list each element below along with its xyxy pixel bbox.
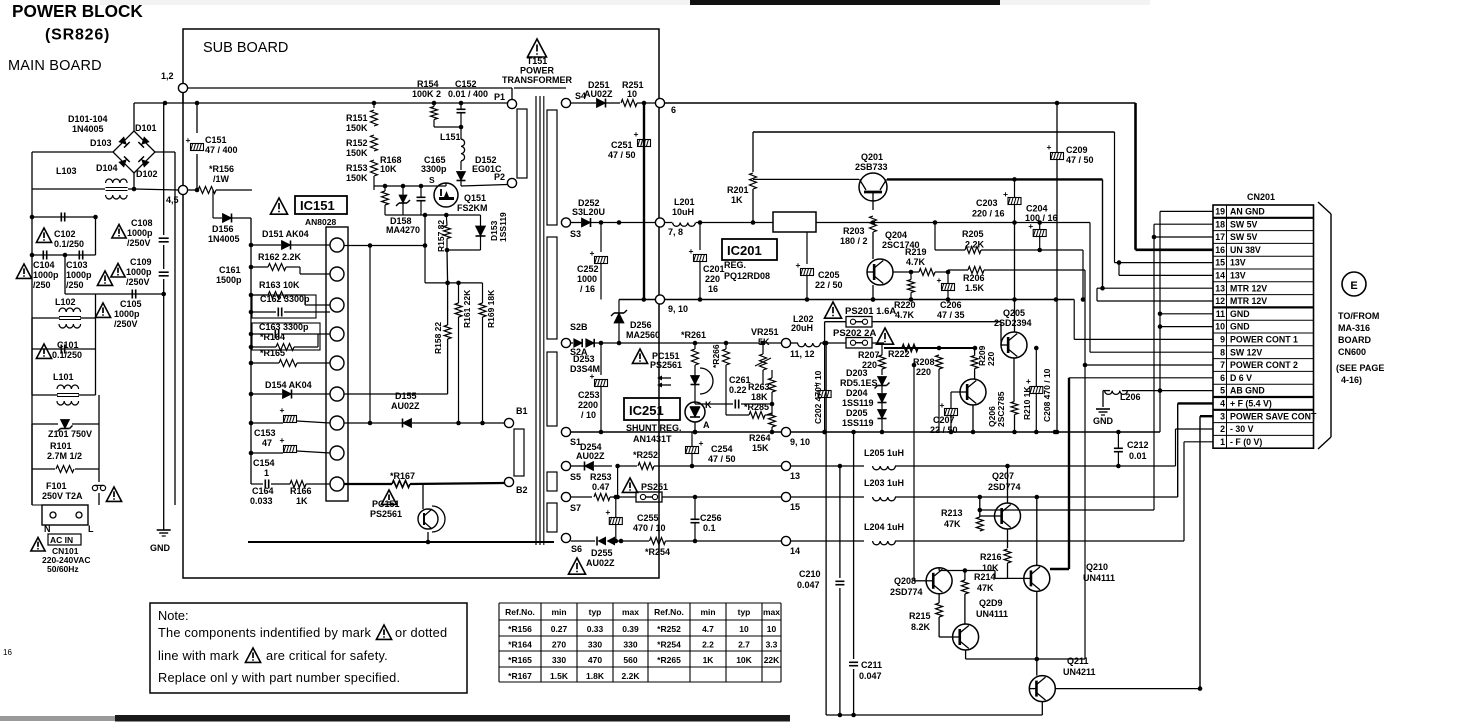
svg-text:560: 560 [623, 655, 637, 665]
svg-text:+: + [940, 400, 945, 410]
svg-text:IC151: IC151 [300, 198, 335, 213]
svg-text:R213: R213 [941, 508, 963, 518]
svg-text:15K: 15K [752, 443, 769, 453]
svg-text:MA-316: MA-316 [1338, 323, 1370, 333]
svg-text:4: 4 [1220, 399, 1225, 409]
svg-text:R166: R166 [290, 486, 312, 496]
svg-text:L206: L206 [1120, 392, 1141, 402]
svg-text:10uH: 10uH [672, 207, 694, 217]
svg-text:180 / 2: 180 / 2 [840, 236, 868, 246]
svg-text:L101: L101 [53, 372, 74, 382]
svg-text:C108: C108 [131, 218, 153, 228]
svg-text:B2: B2 [516, 485, 528, 495]
svg-text:47 / 50: 47 / 50 [1066, 155, 1094, 165]
svg-text:220: 220 [916, 367, 931, 377]
svg-text:+: + [1028, 221, 1033, 231]
svg-text:0.1/250: 0.1/250 [54, 239, 84, 249]
svg-text:1N4005: 1N4005 [208, 234, 240, 244]
svg-text:C205: C205 [818, 270, 840, 280]
svg-text:2SD2394: 2SD2394 [994, 318, 1032, 328]
svg-text:3: 3 [1220, 411, 1225, 421]
svg-text:AU02Z: AU02Z [584, 89, 613, 99]
svg-text:S2B: S2B [570, 322, 588, 332]
svg-text:R220: R220 [894, 300, 916, 310]
svg-text:R222: R222 [888, 349, 910, 359]
svg-text:R215: R215 [909, 611, 931, 621]
svg-text:R158 22: R158 22 [433, 322, 443, 354]
svg-text:/ 10: / 10 [581, 410, 596, 420]
svg-text:1000p: 1000p [33, 270, 59, 280]
svg-text:IC201: IC201 [727, 243, 762, 258]
svg-text:/250V: /250V [114, 319, 138, 329]
svg-text:7, 8: 7, 8 [668, 227, 683, 237]
svg-text:AB GND: AB GND [1230, 386, 1265, 396]
svg-text:PS251: PS251 [641, 482, 668, 492]
svg-text:2.7: 2.7 [738, 640, 750, 650]
svg-text:47 / 50: 47 / 50 [708, 454, 736, 464]
svg-text:L102: L102 [55, 297, 76, 307]
svg-text:Ref.No.: Ref.No. [505, 607, 535, 617]
svg-text:1N4005: 1N4005 [72, 124, 104, 134]
svg-text:*R167: *R167 [508, 671, 532, 681]
svg-text:+: + [1003, 189, 1008, 199]
svg-text:1: 1 [1220, 437, 1225, 447]
svg-text:/250: /250 [66, 280, 84, 290]
svg-text:or dotted: or dotted [395, 625, 447, 640]
svg-text:IC251: IC251 [629, 403, 664, 418]
svg-text:D 6 V: D 6 V [1230, 373, 1252, 383]
svg-text:220 / 16: 220 / 16 [972, 209, 1005, 219]
svg-text:C211: C211 [861, 660, 882, 670]
svg-text:MA4270: MA4270 [386, 225, 420, 235]
svg-text:REG.: REG. [724, 260, 746, 270]
svg-text:Q204: Q204 [885, 230, 907, 240]
svg-text:+: + [280, 435, 285, 445]
svg-text:+: + [605, 507, 610, 517]
svg-text:C207: C207 [933, 415, 955, 425]
svg-text:330: 330 [552, 655, 566, 665]
svg-text:C203: C203 [976, 198, 998, 208]
svg-text:Q210: Q210 [1086, 562, 1108, 572]
svg-text:1SS119: 1SS119 [842, 398, 874, 408]
svg-text:1000p: 1000p [127, 228, 153, 238]
svg-text:10: 10 [767, 624, 777, 634]
svg-text:4,5: 4,5 [166, 195, 179, 205]
svg-text:*R254: *R254 [645, 547, 670, 557]
svg-text:AU02Z: AU02Z [391, 401, 420, 411]
svg-text:22 / 50: 22 / 50 [815, 280, 843, 290]
svg-text:9, 10: 9, 10 [668, 304, 688, 314]
svg-text:C153: C153 [254, 428, 276, 438]
svg-text:7: 7 [1220, 360, 1225, 370]
svg-text:*R156: *R156 [209, 164, 234, 174]
svg-text:C206: C206 [940, 300, 962, 310]
svg-text:S: S [429, 175, 435, 185]
svg-text:VR251: VR251 [751, 327, 779, 337]
svg-text:270: 270 [552, 640, 566, 650]
svg-text:47 / 35: 47 / 35 [937, 310, 965, 320]
svg-text:UN4111: UN4111 [976, 609, 1008, 619]
svg-text:R101: R101 [50, 441, 72, 451]
svg-text:1000p: 1000p [114, 309, 140, 319]
svg-text:Q211: Q211 [1067, 656, 1089, 666]
svg-text:min: min [700, 607, 715, 617]
svg-text:47K: 47K [977, 583, 994, 593]
svg-text:R152: R152 [346, 138, 368, 148]
svg-text:19: 19 [1215, 207, 1225, 217]
svg-text:POWER: POWER [520, 66, 555, 76]
svg-text:47K: 47K [944, 519, 961, 529]
svg-text:9, 10: 9, 10 [790, 437, 810, 447]
svg-text:typ: typ [589, 607, 602, 617]
svg-text:+: + [634, 129, 639, 139]
svg-text:2.2: 2.2 [702, 640, 714, 650]
svg-text:220: 220 [986, 352, 996, 366]
svg-text:L205 1uH: L205 1uH [864, 448, 904, 458]
svg-text:0.1/250: 0.1/250 [52, 350, 82, 360]
svg-text:5: 5 [1220, 386, 1225, 396]
svg-text:1000p: 1000p [66, 270, 92, 280]
svg-text:C252: C252 [577, 264, 599, 274]
svg-text:AN1431T: AN1431T [633, 434, 672, 444]
svg-text:0.33: 0.33 [587, 624, 604, 634]
svg-text:0.27: 0.27 [551, 624, 568, 634]
svg-text:*R254: *R254 [657, 640, 681, 650]
svg-text:0.1: 0.1 [703, 523, 716, 533]
svg-text:*R265: *R265 [657, 655, 681, 665]
svg-text:1500p: 1500p [216, 275, 242, 285]
svg-text:D101-104: D101-104 [68, 114, 108, 124]
svg-text:MA2560: MA2560 [626, 330, 660, 340]
svg-text:D3S4M: D3S4M [570, 364, 600, 374]
svg-text:C253: C253 [578, 390, 600, 400]
svg-text:8: 8 [1220, 347, 1225, 357]
svg-text:Q151: Q151 [464, 193, 486, 203]
svg-text:MAIN BOARD: MAIN BOARD [8, 58, 102, 74]
svg-text:4-16): 4-16) [1341, 375, 1362, 385]
svg-text:max: max [763, 607, 780, 617]
svg-text:*R164: *R164 [260, 332, 285, 342]
svg-text:SW 5V: SW 5V [1230, 232, 1258, 242]
svg-text:C105: C105 [120, 299, 142, 309]
svg-text:D103: D103 [90, 138, 112, 148]
svg-text:CN600: CN600 [1338, 347, 1366, 357]
svg-text:C209: C209 [1066, 145, 1088, 155]
svg-text:10: 10 [627, 89, 637, 99]
svg-text:22K: 22K [764, 655, 780, 665]
svg-text:C102: C102 [54, 229, 76, 239]
svg-text:4.7K: 4.7K [895, 310, 915, 320]
svg-text:C255: C255 [637, 513, 659, 523]
svg-text:+: + [796, 260, 801, 270]
svg-text:POWER SAVE CONT: POWER SAVE CONT [1230, 411, 1317, 421]
svg-text:/ 16: / 16 [580, 284, 595, 294]
svg-text:C201: C201 [703, 264, 725, 274]
svg-text:Ref.No.: Ref.No. [654, 607, 684, 617]
svg-text:The components indentified by: The components indentified by mark [158, 625, 371, 640]
svg-text:15: 15 [1215, 258, 1225, 268]
svg-text:C103: C103 [66, 260, 88, 270]
svg-text:50/60Hz: 50/60Hz [47, 564, 79, 574]
svg-text:are critical for safety.: are critical for safety. [266, 648, 388, 663]
svg-text:6: 6 [671, 105, 676, 115]
svg-text:N: N [44, 524, 51, 534]
svg-text:GND: GND [1093, 416, 1114, 426]
svg-text:220: 220 [705, 274, 720, 284]
svg-text:0.01: 0.01 [1129, 451, 1147, 461]
svg-text:D155: D155 [395, 391, 417, 401]
svg-text:4.7: 4.7 [702, 624, 714, 634]
svg-text:330: 330 [588, 640, 602, 650]
svg-text:(SR826): (SR826) [45, 27, 110, 44]
svg-text:L203 1uH: L203 1uH [864, 478, 904, 488]
svg-text:9: 9 [1220, 335, 1225, 345]
svg-text:typ: typ [738, 607, 751, 617]
svg-text:B1: B1 [516, 406, 528, 416]
svg-text:*R266: *R266 [711, 344, 721, 368]
svg-text:D151 AK04: D151 AK04 [262, 229, 309, 239]
svg-text:R214: R214 [974, 572, 996, 582]
svg-text:F101: F101 [46, 481, 67, 491]
svg-text:P1: P1 [494, 92, 505, 102]
svg-text:0.22: 0.22 [729, 385, 747, 395]
svg-text:L103: L103 [56, 166, 77, 176]
svg-text:Z101 750V: Z101 750V [48, 429, 92, 439]
svg-text:L: L [88, 524, 94, 534]
svg-text:+: + [590, 248, 595, 258]
svg-text:- 30 V: - 30 V [1230, 424, 1254, 434]
svg-text:+: + [590, 371, 595, 381]
svg-text:22 / 50: 22 / 50 [930, 425, 958, 435]
svg-text:R216: R216 [980, 552, 1002, 562]
svg-text:R162 2.2K: R162 2.2K [258, 252, 302, 262]
svg-text:+: + [280, 405, 285, 415]
svg-text:13: 13 [1215, 283, 1225, 293]
svg-text:C101: C101 [57, 340, 79, 350]
svg-text:0.047: 0.047 [797, 580, 820, 590]
svg-text:1.5K: 1.5K [965, 283, 985, 293]
svg-text:+: + [699, 438, 704, 448]
svg-text:10: 10 [1215, 322, 1225, 332]
svg-text:FS2KM: FS2KM [457, 203, 488, 213]
svg-text:2SB733: 2SB733 [855, 162, 888, 172]
svg-text:C212: C212 [1127, 440, 1149, 450]
svg-text:*R285: *R285 [744, 402, 769, 412]
svg-text:47: 47 [262, 438, 272, 448]
svg-text:C104: C104 [33, 260, 55, 270]
svg-text:+: + [937, 275, 942, 285]
svg-text:D154 AK04: D154 AK04 [265, 380, 312, 390]
svg-text:1000: 1000 [577, 274, 597, 284]
svg-text:GND: GND [1230, 322, 1250, 332]
svg-text:0.47: 0.47 [592, 482, 610, 492]
svg-text:AN8028: AN8028 [305, 217, 336, 227]
svg-text:SW 5V: SW 5V [1230, 219, 1258, 229]
svg-text:20uH: 20uH [791, 323, 813, 333]
svg-text:E: E [1350, 280, 1357, 292]
svg-text:+ F (5.4 V): + F (5.4 V) [1230, 399, 1272, 409]
svg-text:SUB BOARD: SUB BOARD [203, 40, 288, 56]
svg-text:1: 1 [264, 468, 269, 478]
svg-text:13V: 13V [1230, 271, 1246, 281]
svg-text:PQ12RD08: PQ12RD08 [724, 271, 770, 281]
svg-text:6: 6 [1220, 373, 1225, 383]
svg-text:1,2: 1,2 [161, 71, 174, 81]
svg-text:C256: C256 [700, 513, 722, 523]
svg-text:R163 10K: R163 10K [259, 280, 300, 290]
svg-text:47 / 50: 47 / 50 [608, 150, 636, 160]
svg-text:A: A [703, 420, 710, 430]
svg-text:R263: R263 [748, 382, 770, 392]
svg-text:MTR 12V: MTR 12V [1230, 296, 1267, 306]
svg-text:TRANSFORMER: TRANSFORMER [502, 75, 572, 85]
svg-text:PS2561: PS2561 [370, 509, 402, 519]
svg-text:R253: R253 [590, 472, 612, 482]
svg-text:RD5.1ES: RD5.1ES [840, 378, 878, 388]
svg-text:max: max [622, 607, 639, 617]
svg-text:S7: S7 [570, 503, 581, 513]
svg-text:C204: C204 [1026, 204, 1048, 214]
svg-text:1SS119: 1SS119 [498, 212, 508, 242]
svg-text:D255: D255 [591, 548, 613, 558]
svg-text:1SS119: 1SS119 [842, 418, 874, 428]
svg-text:330: 330 [623, 640, 637, 650]
svg-text:+: + [689, 246, 694, 256]
svg-text:150K: 150K [346, 173, 368, 183]
svg-text:13: 13 [790, 471, 800, 481]
svg-text:S6: S6 [571, 544, 582, 554]
svg-text:R161 22K: R161 22K [462, 289, 472, 328]
svg-text:AN GND: AN GND [1230, 207, 1265, 217]
svg-text:Q2D9: Q2D9 [979, 598, 1003, 608]
svg-text:/250: /250 [33, 280, 51, 290]
svg-text:AC IN: AC IN [50, 535, 73, 545]
svg-text:4.7K: 4.7K [906, 257, 926, 267]
svg-text:R205: R205 [962, 229, 984, 239]
svg-text:Replace onl y with part number: Replace onl y with part number specified… [158, 670, 400, 685]
svg-text:TO/FROM: TO/FROM [1338, 311, 1379, 321]
svg-text:10K: 10K [380, 164, 397, 174]
svg-text:Note:: Note: [158, 608, 189, 623]
svg-text:line with mark: line with mark [158, 648, 239, 663]
svg-text:L204 1uH: L204 1uH [864, 522, 904, 532]
svg-text:1000p: 1000p [126, 267, 152, 277]
svg-text:D101: D101 [135, 123, 157, 133]
svg-text:C164: C164 [252, 486, 274, 496]
svg-text:C151: C151 [205, 135, 227, 145]
svg-text:+: + [1026, 376, 1031, 386]
svg-text:GND: GND [150, 543, 171, 553]
svg-text:100K 2: 100K 2 [412, 89, 441, 99]
svg-text:R169 18K: R169 18K [486, 289, 496, 328]
svg-text:S3L20U: S3L20U [572, 207, 605, 217]
svg-text:/250V: /250V [126, 277, 150, 287]
svg-text:D204: D204 [846, 388, 868, 398]
svg-text:8.2K: 8.2K [911, 622, 931, 632]
svg-text:+: + [186, 135, 191, 145]
svg-text:T151: T151 [527, 56, 548, 66]
svg-text:16: 16 [708, 284, 718, 294]
svg-text:16: 16 [3, 648, 12, 657]
svg-text:CN201: CN201 [1247, 192, 1275, 202]
svg-text:150K: 150K [346, 123, 368, 133]
svg-text:C261: C261 [729, 375, 751, 385]
svg-text:POWER CONT 2: POWER CONT 2 [1230, 360, 1298, 370]
svg-text:0.047: 0.047 [859, 671, 882, 681]
svg-text:11: 11 [1216, 309, 1225, 319]
svg-text:C109: C109 [130, 257, 152, 267]
svg-text:/250V: /250V [127, 238, 151, 248]
svg-text:S5: S5 [570, 472, 581, 482]
svg-text:R219: R219 [905, 247, 927, 257]
svg-text:*R164: *R164 [508, 640, 532, 650]
svg-text:Q207: Q207 [992, 471, 1014, 481]
svg-text:AU02Z: AU02Z [586, 558, 615, 568]
svg-text:+: + [1047, 142, 1052, 152]
svg-text:D253: D253 [573, 354, 595, 364]
svg-text:2SD774: 2SD774 [988, 482, 1021, 492]
svg-text:2: 2 [1220, 424, 1225, 434]
svg-text:BOARD: BOARD [1338, 335, 1371, 345]
svg-text:D104: D104 [96, 163, 118, 173]
svg-text:K: K [705, 400, 712, 410]
svg-text:S3: S3 [570, 229, 581, 239]
svg-text:PS2561: PS2561 [650, 360, 682, 370]
svg-text:14: 14 [1215, 271, 1225, 281]
svg-text:C254: C254 [711, 444, 733, 454]
svg-text:*R261: *R261 [681, 330, 706, 340]
svg-text:C210: C210 [799, 569, 821, 579]
svg-text:/1W: /1W [213, 174, 230, 184]
svg-text:*R252: *R252 [633, 450, 658, 460]
svg-text:1K: 1K [296, 496, 308, 506]
svg-text:47 / 400: 47 / 400 [205, 145, 238, 155]
svg-text:11, 12: 11, 12 [790, 349, 815, 359]
svg-text:C251: C251 [611, 140, 633, 150]
svg-text:0.01 / 400: 0.01 / 400 [448, 89, 488, 99]
svg-text:*R252: *R252 [657, 624, 681, 634]
svg-text:0.033: 0.033 [250, 496, 273, 506]
svg-text:min: min [551, 607, 566, 617]
svg-text:D102: D102 [136, 169, 158, 179]
svg-text:3300p: 3300p [421, 164, 447, 174]
svg-text:*R156: *R156 [508, 624, 532, 634]
svg-text:Q201: Q201 [861, 152, 883, 162]
svg-text:+: + [814, 380, 819, 390]
svg-text:1K: 1K [731, 195, 743, 205]
svg-text:SW 12V: SW 12V [1230, 347, 1262, 357]
svg-text:2SC2785: 2SC2785 [996, 391, 1006, 427]
svg-text:R203: R203 [843, 226, 865, 236]
svg-text:470 / 10: 470 / 10 [633, 523, 666, 533]
svg-text:AU02Z: AU02Z [576, 451, 605, 461]
svg-text:470: 470 [588, 655, 602, 665]
svg-text:12: 12 [1215, 296, 1225, 306]
svg-text:UN 38V: UN 38V [1230, 245, 1261, 255]
svg-text:16: 16 [1215, 245, 1225, 255]
svg-text:R153: R153 [346, 163, 368, 173]
svg-text:2200: 2200 [578, 400, 598, 410]
svg-text:250V T2A: 250V T2A [42, 491, 83, 501]
svg-text:10: 10 [739, 624, 749, 634]
svg-text:MTR 12V: MTR 12V [1230, 283, 1267, 293]
svg-text:15: 15 [790, 502, 800, 512]
svg-text:R207: R207 [858, 350, 880, 360]
svg-text:D205: D205 [846, 408, 868, 418]
svg-text:Q208: Q208 [894, 576, 916, 586]
svg-text:R151: R151 [346, 113, 368, 123]
svg-text:0.39: 0.39 [622, 624, 639, 634]
